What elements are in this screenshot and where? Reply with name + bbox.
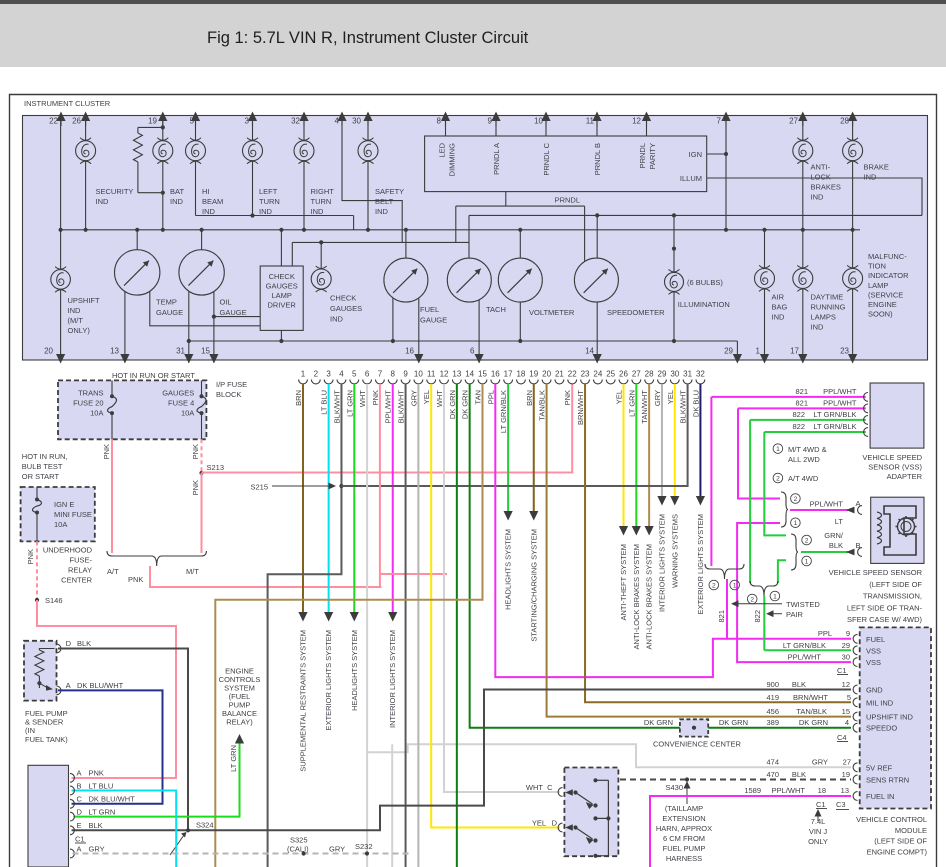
svg-text:30: 30 [842,653,850,662]
svg-text:SENS RTRN: SENS RTRN [866,776,909,785]
svg-text:FUEL: FUEL [420,305,439,314]
svg-text:10A: 10A [181,409,194,418]
svg-text:SPEEDO: SPEEDO [866,724,897,733]
svg-text:M/T 4WD &: M/T 4WD & [788,445,827,454]
svg-text:PNK: PNK [128,575,143,584]
svg-text:LT BLU: LT BLU [89,781,114,790]
svg-text:16: 16 [405,347,414,356]
svg-text:MODULE: MODULE [895,826,927,835]
svg-text:7.4L: 7.4L [811,817,826,826]
svg-text:BELT: BELT [375,197,394,206]
svg-text:8: 8 [437,117,442,126]
svg-text:BULB TEST: BULB TEST [22,462,63,471]
svg-text:BLK: BLK [829,541,843,550]
svg-text:2: 2 [794,496,798,503]
svg-text:PRNDL B: PRNDL B [593,143,602,175]
svg-text:821: 821 [717,610,726,623]
svg-text:A: A [856,499,861,508]
svg-text:LT GRN: LT GRN [229,745,238,772]
svg-text:C1: C1 [837,666,847,675]
svg-text:GRY: GRY [653,390,662,406]
svg-text:AIR: AIR [772,293,785,302]
svg-text:BRN/WHT: BRN/WHT [793,693,828,702]
svg-text:IND: IND [811,323,825,332]
svg-text:7: 7 [717,117,722,126]
svg-text:LT GRN: LT GRN [89,807,116,816]
svg-text:ONLY): ONLY) [68,326,91,335]
svg-text:23: 23 [581,370,590,379]
svg-text:TRANSMISSION,: TRANSMISSION, [863,592,922,601]
svg-text:(6 BULBS): (6 BULBS) [687,278,723,287]
svg-text:TURN: TURN [259,197,280,206]
svg-text:GND: GND [866,686,883,695]
svg-text:A: A [66,681,71,690]
svg-text:OR START: OR START [22,472,60,481]
svg-text:SECURITY: SECURITY [96,187,134,196]
svg-text:PNK: PNK [89,769,104,778]
svg-text:28: 28 [645,370,654,379]
svg-text:LT: LT [835,517,844,526]
svg-text:DK BLU/WHT: DK BLU/WHT [77,681,124,690]
svg-text:PPL/WHT: PPL/WHT [384,390,393,424]
svg-text:ADAPTER: ADAPTER [887,472,923,481]
svg-text:VOLTMETER: VOLTMETER [529,308,575,317]
svg-text:YEL: YEL [422,390,431,404]
svg-text:1: 1 [301,370,306,379]
svg-text:I/P FUSE: I/P FUSE [216,380,247,389]
svg-text:CENTER: CENTER [61,576,92,585]
svg-text:PPL/WHT: PPL/WHT [772,786,806,795]
svg-text:24: 24 [593,370,602,379]
svg-text:389: 389 [766,718,779,727]
svg-text:BLK/WHT: BLK/WHT [397,390,406,424]
svg-text:1: 1 [776,446,780,453]
svg-text:C1: C1 [816,800,826,809]
svg-text:SAFETY: SAFETY [375,187,404,196]
svg-text:TACH: TACH [486,305,506,314]
svg-text:PAIR: PAIR [786,610,804,619]
svg-text:5V REF: 5V REF [866,763,893,772]
svg-text:ANTI-LOCK BRAKES SYSTEM: ANTI-LOCK BRAKES SYSTEM [632,544,641,649]
svg-text:HARN, APPROX: HARN, APPROX [656,824,712,833]
svg-text:RUNNING: RUNNING [811,303,846,312]
svg-text:ILLUMINATION: ILLUMINATION [678,300,730,309]
svg-text:C3: C3 [836,800,846,809]
svg-text:SFER CASE W/ 4WD): SFER CASE W/ 4WD) [847,615,923,624]
svg-text:26: 26 [72,117,81,126]
svg-text:13: 13 [841,786,849,795]
svg-text:18: 18 [818,786,826,795]
svg-text:10A: 10A [90,409,103,418]
svg-text:GRY: GRY [89,844,105,853]
svg-text:ANTI-: ANTI- [811,163,831,172]
svg-text:S213: S213 [207,463,225,472]
svg-text:2: 2 [314,370,319,379]
svg-text:PPL: PPL [486,390,495,404]
svg-text:CHECK: CHECK [330,294,356,303]
svg-text:IND: IND [864,173,878,182]
svg-text:PRNDL: PRNDL [555,196,580,205]
svg-text:10: 10 [414,370,423,379]
svg-text:RIGHT: RIGHT [311,187,335,196]
svg-text:GAUGE: GAUGE [420,316,447,325]
svg-text:TAN/WHT: TAN/WHT [640,390,649,424]
svg-text:FUEL IN: FUEL IN [866,792,894,801]
svg-text:SUPPLEMENTAL RESTRAINTS SYSTEM: SUPPLEMENTAL RESTRAINTS SYSTEM [299,630,308,772]
svg-text:29: 29 [842,641,850,650]
svg-text:9: 9 [403,370,408,379]
svg-text:TEMP: TEMP [156,298,177,307]
svg-text:BLK: BLK [792,770,806,779]
svg-text:TURN: TURN [311,197,332,206]
svg-text:32: 32 [696,370,705,379]
svg-text:A/T: A/T [107,567,119,576]
svg-text:HOT IN RUN,: HOT IN RUN, [22,452,68,461]
svg-text:LT GRN/BLK: LT GRN/BLK [813,422,856,431]
svg-text:PPL/WHT: PPL/WHT [788,653,822,662]
svg-text:822: 822 [792,422,805,431]
svg-text:25: 25 [606,370,615,379]
svg-text:(M/T: (M/T [68,316,84,325]
svg-text:GAUGE: GAUGE [220,308,247,317]
svg-text:YEL: YEL [615,390,624,404]
svg-text:6 CM FROM: 6 CM FROM [663,834,705,843]
svg-text:12: 12 [632,117,641,126]
svg-text:PNK: PNK [191,444,200,459]
svg-text:30: 30 [670,370,679,379]
svg-text:BRAKE: BRAKE [864,163,889,172]
svg-text:11: 11 [427,370,436,379]
svg-text:474: 474 [766,758,779,767]
svg-text:1: 1 [805,558,809,565]
svg-text:12: 12 [440,370,449,379]
svg-text:5: 5 [847,693,851,702]
svg-text:RELAY): RELAY) [226,718,253,727]
svg-text:470: 470 [766,770,779,779]
svg-text:INTERIOR LIGHTS SYSTEM: INTERIOR LIGHTS SYSTEM [657,514,666,612]
svg-text:IND: IND [259,207,273,216]
svg-text:6: 6 [365,370,370,379]
svg-text:BLK/WHT: BLK/WHT [679,390,688,424]
svg-text:19: 19 [148,117,157,126]
svg-text:INSTRUMENT CLUSTER: INSTRUMENT CLUSTER [24,99,111,108]
svg-text:MALFUNC-: MALFUNC- [868,252,907,261]
svg-text:IND: IND [311,207,325,216]
svg-text:DK BLU/WHT: DK BLU/WHT [89,795,136,804]
svg-text:26: 26 [619,370,628,379]
svg-text:2: 2 [805,537,809,544]
svg-text:TAN/BLK: TAN/BLK [796,707,827,716]
svg-text:31: 31 [176,347,185,356]
svg-text:20: 20 [44,347,53,356]
svg-text:(LEFT SIDE OF: (LEFT SIDE OF [874,837,927,846]
svg-text:LEFT SIDE OF TRAN-: LEFT SIDE OF TRAN- [847,603,923,612]
svg-text:TRANS: TRANS [78,389,103,398]
svg-text:32: 32 [291,117,300,126]
svg-text:C4: C4 [837,733,847,742]
svg-text:S324: S324 [196,821,214,830]
svg-text:TWISTED: TWISTED [786,600,820,609]
svg-text:MINI FUSE: MINI FUSE [54,510,92,519]
svg-text:13: 13 [452,370,461,379]
svg-text:16: 16 [491,370,500,379]
svg-text:UNDERHOOD: UNDERHOOD [43,546,93,555]
svg-text:C: C [77,795,83,804]
svg-text:IGN E: IGN E [54,500,74,509]
svg-text:IND: IND [375,207,389,216]
svg-text:DK GRN: DK GRN [719,718,748,727]
svg-text:VEHICLE SPEED SENSOR: VEHICLE SPEED SENSOR [829,568,923,577]
svg-text:31: 31 [683,370,692,379]
svg-text:4: 4 [845,718,849,727]
svg-text:27: 27 [843,758,851,767]
svg-text:27: 27 [632,370,641,379]
svg-text:ALL 2WD: ALL 2WD [788,455,820,464]
svg-text:S215: S215 [250,483,268,492]
svg-text:7: 7 [378,370,383,379]
svg-text:WHT: WHT [526,783,543,792]
svg-text:STARTING/CHARGING SYSTEM: STARTING/CHARGING SYSTEM [529,529,538,642]
svg-text:3: 3 [326,370,331,379]
svg-text:ONLY: ONLY [808,837,828,846]
svg-text:IND: IND [96,197,110,206]
svg-text:LT GRN: LT GRN [627,390,636,417]
svg-text:2: 2 [776,475,780,482]
svg-text:821: 821 [795,387,808,396]
svg-text:PRNDL C: PRNDL C [542,142,551,175]
svg-text:HEADLIGHTS SYSTEM: HEADLIGHTS SYSTEM [504,529,513,610]
svg-text:GRY: GRY [329,845,345,854]
svg-text:PNK: PNK [102,444,111,459]
svg-text:2: 2 [712,582,716,589]
svg-text:D: D [77,807,83,816]
svg-text:1: 1 [794,520,798,527]
svg-text:PNK: PNK [371,390,380,405]
svg-text:DK GRN: DK GRN [799,718,828,727]
svg-text:TAN/BLK: TAN/BLK [538,390,547,421]
svg-text:LT GRN/BLK: LT GRN/BLK [499,390,508,433]
svg-text:RELAY: RELAY [68,566,92,575]
svg-text:9: 9 [846,629,850,638]
svg-text:17: 17 [504,370,513,379]
svg-text:C: C [547,783,553,792]
svg-text:VSS: VSS [866,646,881,655]
svg-text:30: 30 [352,117,361,126]
svg-text:UPSHIFT IND: UPSHIFT IND [866,713,914,722]
svg-text:LAMP: LAMP [868,281,888,290]
svg-text:IND: IND [330,315,344,324]
svg-text:S232: S232 [355,842,373,851]
svg-text:EXTERIOR LIGHTS SYSTEM: EXTERIOR LIGHTS SYSTEM [696,514,705,614]
svg-text:14: 14 [465,370,474,379]
svg-text:GAUGES: GAUGES [162,389,194,398]
svg-text:1589: 1589 [744,786,761,795]
svg-text:IGN: IGN [689,150,702,159]
svg-text:VEHICLE SPEED: VEHICLE SPEED [862,453,922,462]
svg-text:A: A [77,844,82,853]
svg-text:LT GRN/BLK: LT GRN/BLK [783,641,826,650]
svg-text:WHT: WHT [358,390,367,407]
svg-text:VSS: VSS [866,658,881,667]
svg-text:15: 15 [842,707,850,716]
svg-text:19: 19 [529,370,538,379]
svg-text:CONVENIENCE CENTER: CONVENIENCE CENTER [653,740,742,749]
svg-text:IND: IND [202,207,216,216]
svg-text:LOCK: LOCK [811,173,831,182]
svg-text:PPL/WHT: PPL/WHT [823,399,857,408]
svg-text:GAUGES: GAUGES [330,304,362,313]
svg-text:FUEL PUMP: FUEL PUMP [663,844,706,853]
svg-text:CHECK: CHECK [269,272,295,281]
svg-text:1: 1 [756,347,761,356]
svg-text:TION: TION [868,262,886,271]
svg-text:6: 6 [470,347,475,356]
svg-text:IND: IND [68,306,82,315]
svg-text:DK BLU: DK BLU [691,390,700,417]
svg-text:OIL: OIL [220,298,232,307]
svg-text:2: 2 [750,596,754,603]
svg-text:BEAM: BEAM [202,197,223,206]
svg-text:15: 15 [478,370,487,379]
svg-text:E: E [77,821,82,830]
svg-text:FUEL TANK): FUEL TANK) [25,735,68,744]
svg-text:27: 27 [789,117,798,126]
svg-text:INTERIOR LIGHTS SYSTEM: INTERIOR LIGHTS SYSTEM [388,630,397,728]
svg-text:(CALI): (CALI) [287,845,309,854]
svg-text:YEL: YEL [532,819,546,828]
svg-text:EXTERIOR LIGHTS SYSTEM: EXTERIOR LIGHTS SYSTEM [324,630,333,730]
svg-text:21: 21 [555,370,564,379]
svg-text:PARITY: PARITY [648,143,657,170]
svg-text:D: D [66,639,72,648]
svg-text:LT BLU: LT BLU [320,390,329,415]
svg-text:LAMPS: LAMPS [811,313,836,322]
svg-text:8: 8 [391,370,396,379]
svg-text:S325: S325 [290,836,308,845]
svg-text:4: 4 [339,370,344,379]
svg-text:LEFT: LEFT [259,187,278,196]
svg-text:19: 19 [842,770,850,779]
svg-text:VIN J: VIN J [809,827,828,836]
svg-text:10A: 10A [54,520,67,529]
svg-text:BRN: BRN [294,390,303,406]
svg-text:29: 29 [724,347,733,356]
svg-text:PRNDL: PRNDL [638,143,647,168]
svg-text:LED: LED [438,142,447,157]
svg-text:18: 18 [516,370,525,379]
svg-text:ILLUM: ILLUM [680,174,702,183]
svg-text:SENSOR (VSS): SENSOR (VSS) [868,463,922,472]
svg-text:A: A [77,769,82,778]
svg-text:GRY: GRY [409,390,418,406]
svg-text:PPL: PPL [818,629,832,638]
svg-text:17: 17 [790,347,799,356]
svg-text:S430: S430 [665,783,683,792]
svg-text:PPL/WHT: PPL/WHT [823,387,857,396]
svg-text:HI: HI [202,187,210,196]
svg-text:B: B [856,541,861,550]
svg-text:15: 15 [201,347,210,356]
svg-text:IND: IND [772,313,786,322]
svg-text:TAN: TAN [473,390,482,404]
svg-text:UPSHIFT: UPSHIFT [68,296,101,305]
svg-text:ENGINE COMPT): ENGINE COMPT) [867,847,928,856]
svg-text:900: 900 [766,680,779,689]
svg-text:GRY: GRY [812,758,828,767]
svg-text:A/T 4WD: A/T 4WD [788,474,819,483]
svg-text:LT GRN: LT GRN [345,390,354,417]
svg-text:BRAKES: BRAKES [811,183,841,192]
svg-text:(LEFT SIDE OF: (LEFT SIDE OF [869,580,922,589]
svg-text:LT GRN/BLK: LT GRN/BLK [813,410,856,419]
svg-text:BLK: BLK [77,639,91,648]
svg-text:S146: S146 [45,596,63,605]
svg-text:822: 822 [753,610,762,623]
svg-text:WARNING SYSTEMS: WARNING SYSTEMS [670,514,679,588]
svg-text:ANTI-THEFT SYSTEM: ANTI-THEFT SYSTEM [619,544,628,621]
svg-text:GAUGES: GAUGES [266,282,298,291]
svg-text:LAMP: LAMP [271,291,291,300]
svg-text:HARNESS: HARNESS [666,854,702,863]
svg-text:1: 1 [733,582,737,589]
svg-text:DK GRN: DK GRN [448,390,457,419]
svg-text:FUSE 4: FUSE 4 [168,399,194,408]
svg-text:GAUGE: GAUGE [156,308,183,317]
svg-text:DRIVER: DRIVER [268,301,297,310]
svg-text:IND: IND [170,197,184,206]
svg-text:ENGINE: ENGINE [868,300,897,309]
svg-text:MIL IND: MIL IND [866,698,894,707]
svg-text:29: 29 [658,370,667,379]
svg-text:1: 1 [773,593,777,600]
svg-text:22: 22 [568,370,577,379]
svg-text:BLK: BLK [792,680,806,689]
svg-text:456: 456 [766,707,779,716]
svg-text:HEADLIGHTS SYSTEM: HEADLIGHTS SYSTEM [350,630,359,711]
svg-text:DIMMING: DIMMING [448,143,457,176]
svg-text:GRN/: GRN/ [824,531,844,540]
svg-text:DAYTIME: DAYTIME [811,293,844,302]
svg-text:FUSE 20: FUSE 20 [73,399,103,408]
svg-text:M/T: M/T [186,567,199,576]
svg-text:BLOCK: BLOCK [216,390,241,399]
svg-text:822: 822 [792,410,805,419]
svg-text:EXTENSION: EXTENSION [662,814,705,823]
svg-text:BRN: BRN [525,390,534,406]
svg-text:PNK: PNK [563,390,572,405]
svg-text:ANTI-LOCK BRAKES SYSTEM: ANTI-LOCK BRAKES SYSTEM [645,544,654,649]
svg-text:BLK/WHT: BLK/WHT [332,390,341,424]
svg-text:C1: C1 [75,835,85,844]
svg-text:Fig 1: 5.7L VIN R, Instrument: Fig 1: 5.7L VIN R, Instrument Cluster Ci… [207,29,529,47]
svg-text:BRN/WHT: BRN/WHT [576,390,585,425]
svg-text:YEL: YEL [666,390,675,404]
svg-text:13: 13 [110,347,119,356]
svg-text:20: 20 [542,370,551,379]
svg-text:WHT: WHT [435,390,444,407]
svg-text:821: 821 [795,399,808,408]
svg-text:BAG: BAG [772,303,788,312]
svg-text:(SERVICE: (SERVICE [868,290,903,299]
svg-text:DK GRN: DK GRN [644,718,673,727]
svg-text:419: 419 [766,693,779,702]
svg-text:FUSE-: FUSE- [70,556,93,565]
svg-text:5: 5 [352,370,357,379]
svg-text:FUEL: FUEL [866,635,885,644]
svg-text:SOON): SOON) [868,310,893,319]
svg-text:B: B [77,781,82,790]
svg-text:INDICATOR: INDICATOR [868,271,909,280]
